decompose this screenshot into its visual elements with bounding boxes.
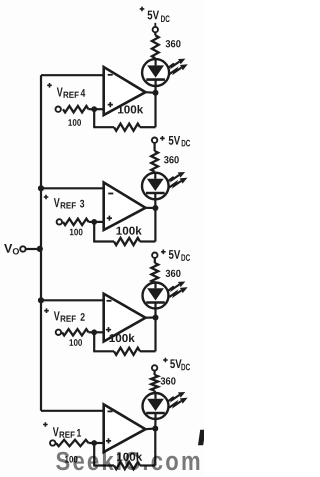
terminal +5VDC stage3	[152, 138, 157, 143]
wire 100 ohm to non-inverting input stage4	[89, 108, 104, 110]
resistor 360 ohm stage2	[151, 263, 158, 283]
resistor 360 ohm stage1	[151, 375, 158, 391]
svg-text:V: V	[54, 308, 60, 323]
svg-text:REF: REF	[59, 430, 75, 440]
svg-text:100: 100	[68, 118, 81, 129]
LED stage2 light emission arrows	[168, 282, 188, 298]
wire V_O vertical bus	[40, 75, 42, 411]
wire resistor to LED anode stage2	[154, 282, 157, 285]
terminal +5VDC stage1	[152, 365, 157, 370]
resistor 360 ohm stage4	[152, 35, 159, 58]
terminal V_REF 4 input	[56, 107, 61, 112]
svg-text:DC: DC	[181, 138, 190, 149]
wire feedback bottom left stage3	[93, 240, 114, 242]
wire feedback bottom right stage3	[140, 240, 155, 242]
wire op-amp output stage1	[146, 427, 156, 430]
junction non-inverting input node stage3	[91, 219, 97, 225]
svg-text:2: 2	[80, 312, 85, 324]
svg-text:REF: REF	[60, 201, 76, 211]
op-amp comparator stage4	[104, 67, 146, 115]
svg-text:1: 1	[76, 428, 81, 440]
wire feedback bottom right stage1	[140, 464, 155, 466]
resistor 100 ohm stage1	[56, 440, 89, 446]
svg-text:DC: DC	[161, 14, 170, 25]
wire op-amp output stage4	[146, 91, 156, 94]
op-amp comparator stage2	[104, 294, 146, 342]
terminal V_O	[20, 246, 25, 251]
svg-text:100k: 100k	[116, 226, 143, 238]
node V_REF 3 label	[44, 195, 85, 211]
resistor 100 ohm stage4	[63, 106, 89, 112]
svg-text:100: 100	[69, 338, 82, 349]
resistor 100 ohm stage2	[62, 329, 89, 335]
wire feedback right vertical stage2	[154, 318, 156, 352]
node +5VDC supply label stage2	[161, 248, 190, 264]
svg-text:5V: 5V	[168, 248, 180, 262]
op-amp comparator stage3	[104, 182, 146, 230]
wire V_O terminal to bus	[26, 248, 41, 250]
wire feedback left vertical stage1	[93, 443, 95, 466]
terminal V_REF 2 input	[56, 330, 61, 335]
wire LED cathode to output node stage4	[154, 85, 156, 93]
wire feedback bottom right stage4	[140, 126, 156, 128]
LED stage2	[143, 283, 169, 309]
LED stage3 light emission arrows	[168, 172, 188, 188]
svg-text:5V: 5V	[168, 134, 180, 148]
svg-text:V: V	[57, 85, 63, 100]
wire feedback right vertical stage4	[154, 93, 156, 127]
junction bus node stage3	[38, 185, 44, 191]
stray mark right edge	[198, 430, 206, 446]
junction V_O on bus	[37, 246, 43, 252]
LED stage3	[142, 173, 169, 200]
wire bus to inverting input stage3	[41, 187, 104, 189]
wire feedback bottom left stage1	[93, 464, 114, 466]
terminal V_REF 3 input	[57, 219, 62, 224]
svg-text:VO: VO	[4, 242, 19, 257]
wire feedback left vertical stage2	[93, 332, 95, 351]
resistor 100k feedback stage4	[114, 124, 140, 131]
wire op-amp output stage3	[146, 207, 156, 209]
junction output node stage1	[152, 426, 158, 432]
junction output node stage2	[153, 315, 159, 321]
wire feedback right vertical stage3	[154, 208, 156, 242]
terminal +5VDC stage2	[152, 253, 157, 258]
wire 100 ohm to non-inverting input stage3	[89, 221, 104, 223]
wire feedback bottom left stage4	[93, 126, 114, 128]
wire bus to inverting input stage4	[41, 74, 104, 76]
terminal +5VDC stage4	[153, 27, 158, 32]
svg-text:DC: DC	[181, 362, 190, 373]
wire feedback bottom left stage2	[93, 350, 114, 352]
wire feedback right vertical stage1	[154, 429, 156, 466]
wire +5V terminal to resistor stage3	[154, 143, 156, 151]
resistor 100k feedback stage2	[114, 348, 140, 355]
svg-text:100k: 100k	[109, 333, 136, 345]
svg-text:360: 360	[160, 377, 176, 388]
resistor 360 ohm stage3	[151, 151, 158, 172]
node V_REF 1 label	[43, 422, 81, 440]
wire 100 ohm to non-inverting input stage2	[89, 331, 104, 333]
svg-text:V: V	[53, 424, 59, 439]
wire LED cathode to output node stage3	[154, 198, 156, 208]
node +5VDC supply label stage3	[160, 134, 190, 150]
junction bus node stage2	[38, 297, 44, 303]
wire bus to inverting input stage2	[41, 299, 104, 301]
node +5VDC supply label stage1	[163, 357, 190, 373]
wire LED cathode to output node stage1	[154, 418, 156, 429]
junction output node stage4	[153, 90, 159, 96]
junction output node stage3	[152, 205, 158, 211]
wire feedback left vertical stage3	[93, 222, 95, 242]
node +5VDC supply label stage4	[140, 7, 170, 28]
node V_REF 4 label	[47, 83, 86, 100]
wire LED cathode to output node stage2	[154, 308, 156, 318]
wire +5V terminal to resistor stage2	[154, 258, 156, 263]
svg-text:DC: DC	[181, 253, 190, 264]
LED stage1 light emission arrows	[168, 392, 188, 408]
wire +5V terminal to resistor stage1	[154, 371, 156, 375]
node V_REF 2 label	[44, 308, 85, 323]
wire feedback bottom right stage2	[140, 350, 156, 352]
svg-text:100k: 100k	[117, 104, 144, 116]
junction non-inverting input node stage1	[91, 440, 97, 446]
wire resistor to LED anode stage3	[154, 172, 157, 174]
svg-text:4: 4	[80, 88, 85, 100]
svg-text:100: 100	[69, 227, 82, 238]
LED stage4 light emission arrows	[168, 59, 188, 75]
wire +5V terminal to resistor stage4	[154, 32, 156, 35]
wire 100 ohm to non-inverting input stage1	[89, 442, 104, 444]
terminal V_REF 1 input	[50, 440, 55, 445]
wire op-amp output stage2	[146, 316, 156, 318]
wire feedback left vertical stage4	[93, 109, 95, 127]
svg-text:V: V	[54, 195, 60, 210]
resistor 100 ohm stage3	[63, 219, 89, 225]
svg-text:360: 360	[165, 269, 181, 280]
svg-text:REF: REF	[63, 90, 79, 100]
svg-text:SeekIC.com: SeekIC.com	[56, 447, 203, 476]
wire resistor to LED anode stage1	[154, 391, 157, 394]
wire bus to inverting input stage1	[41, 410, 104, 412]
op-amp comparator stage1	[104, 404, 146, 452]
resistor 100k feedback stage3	[114, 238, 140, 245]
wire resistor to LED anode stage4	[154, 58, 157, 60]
svg-text:360: 360	[165, 39, 181, 50]
svg-text:REF: REF	[60, 314, 76, 324]
svg-text:360: 360	[164, 155, 180, 166]
LED stage1	[143, 393, 169, 419]
junction non-inverting input node stage4	[91, 106, 97, 112]
LED stage4	[142, 59, 169, 86]
svg-text:3: 3	[80, 198, 85, 210]
resistor 100k feedback stage1	[114, 462, 140, 469]
svg-text:5V: 5V	[147, 8, 159, 22]
junction non-inverting input node stage2	[91, 329, 97, 335]
